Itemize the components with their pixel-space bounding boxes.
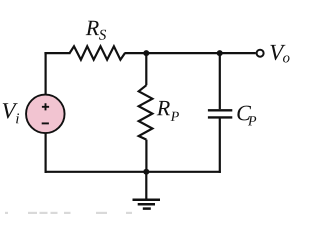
capacitor C_P bottom plate — [208, 116, 232, 118]
node A junction dot — [143, 50, 149, 56]
wire: node B to output terminal — [220, 52, 256, 54]
output terminal circle V_o — [257, 50, 264, 57]
label C_P — [237, 106, 251, 121]
voltage source V_i — [26, 95, 65, 134]
resistor R_S — [70, 46, 125, 59]
wire: C_P bottom plate down to bottom-right corner — [219, 118, 221, 173]
wire: node B down to C_P top plate — [219, 52, 221, 109]
label R_P — [157, 101, 170, 115]
label V_o — [270, 45, 285, 60]
capacitor C_P top plate — [208, 109, 232, 111]
wire: left vertical from source bottom to bottom-left corner — [44, 133, 46, 173]
node B junction dot — [217, 50, 223, 56]
wire: bottom horizontal — [45, 171, 221, 173]
label V_i — [3, 103, 18, 118]
ground — [133, 172, 161, 209]
resistor R_P — [139, 85, 153, 139]
node C junction dot (ground node) — [143, 169, 149, 175]
label R_S — [86, 21, 99, 35]
faint attribution text (clipped at bottom) — [5, 212, 132, 214]
plus sign of V_i — [42, 103, 49, 110]
wire: top middle from R_S to node B — [125, 52, 220, 54]
wire: top-left horizontal from corner to R_S — [44, 52, 70, 54]
minus sign of V_i — [42, 122, 49, 124]
wire: node A down to R_P top — [145, 52, 147, 85]
wire: R_P bottom down to bottom wire — [145, 140, 147, 172]
wire: left vertical from top wire corner down to source top — [44, 52, 46, 95]
